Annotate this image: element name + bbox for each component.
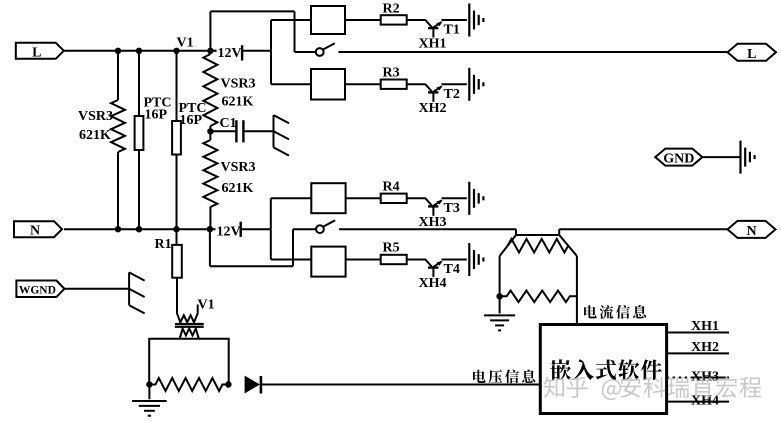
svg-text:L: L xyxy=(32,45,41,60)
connector L (right) xyxy=(728,44,777,62)
label XH1 (T1 base) xyxy=(419,37,447,52)
transistor T3 xyxy=(425,198,466,216)
ground (GND) xyxy=(741,141,755,174)
label XH2 (T2 base) xyxy=(419,101,447,116)
wire C1 right xyxy=(243,130,273,132)
node junction N-R1 xyxy=(173,226,179,232)
wire R1 to V1 xyxy=(176,278,178,314)
svg-text:V1: V1 xyxy=(177,36,194,51)
label V1 (transformer) xyxy=(198,298,215,313)
label T1 xyxy=(444,23,460,38)
wire CT to N right xyxy=(559,228,727,230)
resistor R2 xyxy=(381,15,407,24)
wire WGND xyxy=(64,288,129,290)
node junction N-PTC1 xyxy=(136,226,142,232)
current transformer CT1 secondary xyxy=(508,239,569,253)
label V1 (varistor net) xyxy=(177,36,194,51)
wire R2 to T1 xyxy=(407,19,426,21)
varistor VSR3-1 xyxy=(111,100,125,152)
node junction L-PTC2 xyxy=(173,48,179,54)
svg-text:16P: 16P xyxy=(145,108,168,123)
wire R5 to T4 xyxy=(407,259,426,261)
wire coil4 feed xyxy=(271,259,312,261)
transformer V1 primary xyxy=(177,313,198,322)
svg-text:16P: 16P xyxy=(180,113,203,128)
MCU U1 embedded software box xyxy=(540,325,666,414)
label VSR3-3 value xyxy=(221,160,256,196)
thermistor PTC1 leads xyxy=(138,51,140,229)
node junction V1-diode xyxy=(225,381,231,387)
svg-text:12V: 12V xyxy=(217,225,241,240)
wire CT right down xyxy=(576,256,578,325)
transistor T4 xyxy=(425,260,466,278)
current transformer CT1 primary notch xyxy=(516,229,559,235)
svg-text:WGND: WGND xyxy=(19,284,56,296)
wire pin XH4 xyxy=(667,401,729,403)
wire switch to CT xyxy=(339,228,516,230)
thermistor PTC2 xyxy=(172,121,181,155)
relay coil K2b xyxy=(311,247,345,277)
svg-text:GND: GND xyxy=(663,152,694,167)
resistor R3 xyxy=(381,80,407,89)
label XH4 (T4 base) xyxy=(419,276,447,291)
wire coil4 to R5 xyxy=(346,259,381,261)
relay coil K1a xyxy=(311,6,345,34)
svg-text:T2: T2 xyxy=(444,87,460,102)
switch K2 (N relay contact) xyxy=(316,220,335,233)
node junction C1 xyxy=(207,128,213,134)
label pin XH3 xyxy=(691,370,719,385)
thermistor PTC1 xyxy=(135,116,144,150)
transistor T1 xyxy=(425,20,466,38)
wire pin XH2 xyxy=(667,352,729,354)
svg-text:XH1: XH1 xyxy=(691,319,719,334)
svg-text:VSR3: VSR3 xyxy=(78,109,113,124)
node junction N-VSR3 xyxy=(115,226,121,232)
label PTC1 value xyxy=(144,96,172,123)
svg-text:C1: C1 xyxy=(220,116,237,131)
connector N (left) xyxy=(14,221,62,239)
ground (T2) xyxy=(469,68,483,101)
wire switch to L right xyxy=(339,51,728,53)
varistor VSR3-1 leads xyxy=(117,51,119,229)
connector N (right) xyxy=(728,221,776,239)
svg-text:T3: T3 xyxy=(444,201,460,216)
resistor R1 xyxy=(172,245,182,278)
svg-text:T1: T1 xyxy=(444,23,460,38)
transistor T2 xyxy=(425,84,466,102)
wire CT left down xyxy=(499,256,501,296)
wire N rail xyxy=(64,228,241,230)
connector GND xyxy=(655,149,702,167)
battery 12V (bottom) plate xyxy=(239,222,241,237)
wire C1 left xyxy=(210,130,236,132)
label pin XH1 xyxy=(691,319,719,334)
node junction L-VSR3 xyxy=(115,48,121,54)
wire R3 to T2 xyxy=(407,83,426,85)
resistor R4 xyxy=(381,194,407,203)
node junction L-V1net xyxy=(207,48,213,54)
svg-text:XH3: XH3 xyxy=(691,370,719,385)
thermistor PTC2 leads xyxy=(176,51,178,229)
wire coil1 feed xyxy=(271,19,311,21)
ground (T1) xyxy=(469,4,483,37)
label embedded software xyxy=(550,359,662,380)
wire coil3 to R4 xyxy=(346,197,381,199)
svg-text:L: L xyxy=(747,47,756,62)
relay coil K2a xyxy=(311,183,345,213)
label VSR3-1 value xyxy=(78,109,113,143)
label current info xyxy=(584,305,646,319)
transformer V1 secondary xyxy=(180,329,198,339)
wire L rail xyxy=(64,50,242,52)
label VSR3-2 value xyxy=(221,77,256,110)
wire coil2 feed xyxy=(271,83,311,85)
label R4 xyxy=(383,180,400,195)
svg-text:R2: R2 xyxy=(383,2,400,17)
svg-text:XH3: XH3 xyxy=(419,215,447,230)
wire N-PTC2 stub xyxy=(0,0,1,1)
ground (V1) xyxy=(132,385,167,416)
wire L bypass up xyxy=(210,11,315,52)
label R3 xyxy=(383,66,400,81)
chassis ground (WGND) xyxy=(129,272,145,313)
svg-text:V1: V1 xyxy=(198,298,215,313)
wire N to R1 xyxy=(176,229,178,245)
svg-text:621K: 621K xyxy=(222,181,254,196)
wire coil1 to R2 xyxy=(345,19,381,21)
wire pin XH1 xyxy=(667,332,729,334)
wire coil2 to R3 xyxy=(345,83,381,85)
label T4 xyxy=(444,262,460,277)
svg-text:R5: R5 xyxy=(383,241,400,256)
battery 12V (top) plate xyxy=(241,45,243,60)
current transformer CT1 frame xyxy=(500,235,577,256)
wire coil3 feed xyxy=(271,197,312,199)
svg-text:VSR3: VSR3 xyxy=(221,160,256,175)
svg-text:621K: 621K xyxy=(79,128,111,143)
label 12V (bottom) xyxy=(216,222,241,240)
wire battery to coils (bottom) xyxy=(241,198,271,259)
ground (T4) xyxy=(469,243,483,276)
wire pin XH3 xyxy=(667,377,729,379)
wire V1 secondary frame xyxy=(149,339,229,385)
switch K1 (L relay contact) xyxy=(316,43,335,56)
relay coil K1b xyxy=(311,69,345,100)
svg-text:XH2: XH2 xyxy=(691,340,719,355)
label XH3 (T3 base) xyxy=(419,215,447,230)
resistor V1 burden xyxy=(149,378,228,391)
label R2 xyxy=(383,2,400,17)
svg-text:R3: R3 xyxy=(383,66,400,81)
capacitor C1 xyxy=(236,120,243,142)
svg-text:621K: 621K xyxy=(222,95,254,110)
transformer V1 core xyxy=(175,324,204,327)
watermark zhihu xyxy=(544,376,762,400)
connector L (left) xyxy=(16,43,64,61)
ground (CT) xyxy=(484,296,515,330)
resistor R5 xyxy=(381,255,407,264)
label R5 xyxy=(383,241,400,256)
transformer V1 primary lead2 xyxy=(197,305,199,314)
node junction L-PTC1 xyxy=(136,48,142,54)
label C1 xyxy=(220,116,237,131)
label T3 xyxy=(444,201,460,216)
varistor VSR3-3 xyxy=(203,131,217,229)
node junction V1-ground xyxy=(146,381,152,387)
diode D1 xyxy=(245,376,261,394)
label pin XH4 xyxy=(691,394,719,409)
svg-text:XH2: XH2 xyxy=(419,101,447,116)
label R1 xyxy=(155,237,172,252)
label T2 xyxy=(444,87,460,102)
label pin XH2 xyxy=(691,340,719,355)
varistor VSR3-2 xyxy=(203,54,217,132)
wire N bypass down xyxy=(210,229,316,266)
label 12V (top) xyxy=(217,43,242,61)
wire diode to MCU xyxy=(261,384,540,386)
label PTC2 value xyxy=(179,101,207,128)
svg-text:12V: 12V xyxy=(218,46,242,61)
svg-text:XH1: XH1 xyxy=(419,37,447,52)
resistor CT burden xyxy=(500,291,577,303)
svg-text:XH4: XH4 xyxy=(419,276,447,291)
svg-text:N: N xyxy=(30,224,40,239)
svg-text:VSR3: VSR3 xyxy=(221,77,256,92)
svg-text:R4: R4 xyxy=(383,180,400,195)
node junction CT-ground xyxy=(496,293,502,299)
wire battery to coils (top) xyxy=(242,20,271,84)
svg-text:R1: R1 xyxy=(155,237,172,252)
node junction N-12V xyxy=(207,226,213,232)
label voltage info xyxy=(473,370,535,384)
wire GND xyxy=(702,156,740,158)
wire R4 to T3 xyxy=(407,197,426,199)
ground (T3) xyxy=(469,182,483,215)
chassis ground (C1) xyxy=(274,115,290,156)
svg-text:T4: T4 xyxy=(444,262,460,277)
battery 12V (top) wire xyxy=(210,50,242,52)
connector WGND xyxy=(16,281,64,298)
svg-text:N: N xyxy=(746,224,756,239)
